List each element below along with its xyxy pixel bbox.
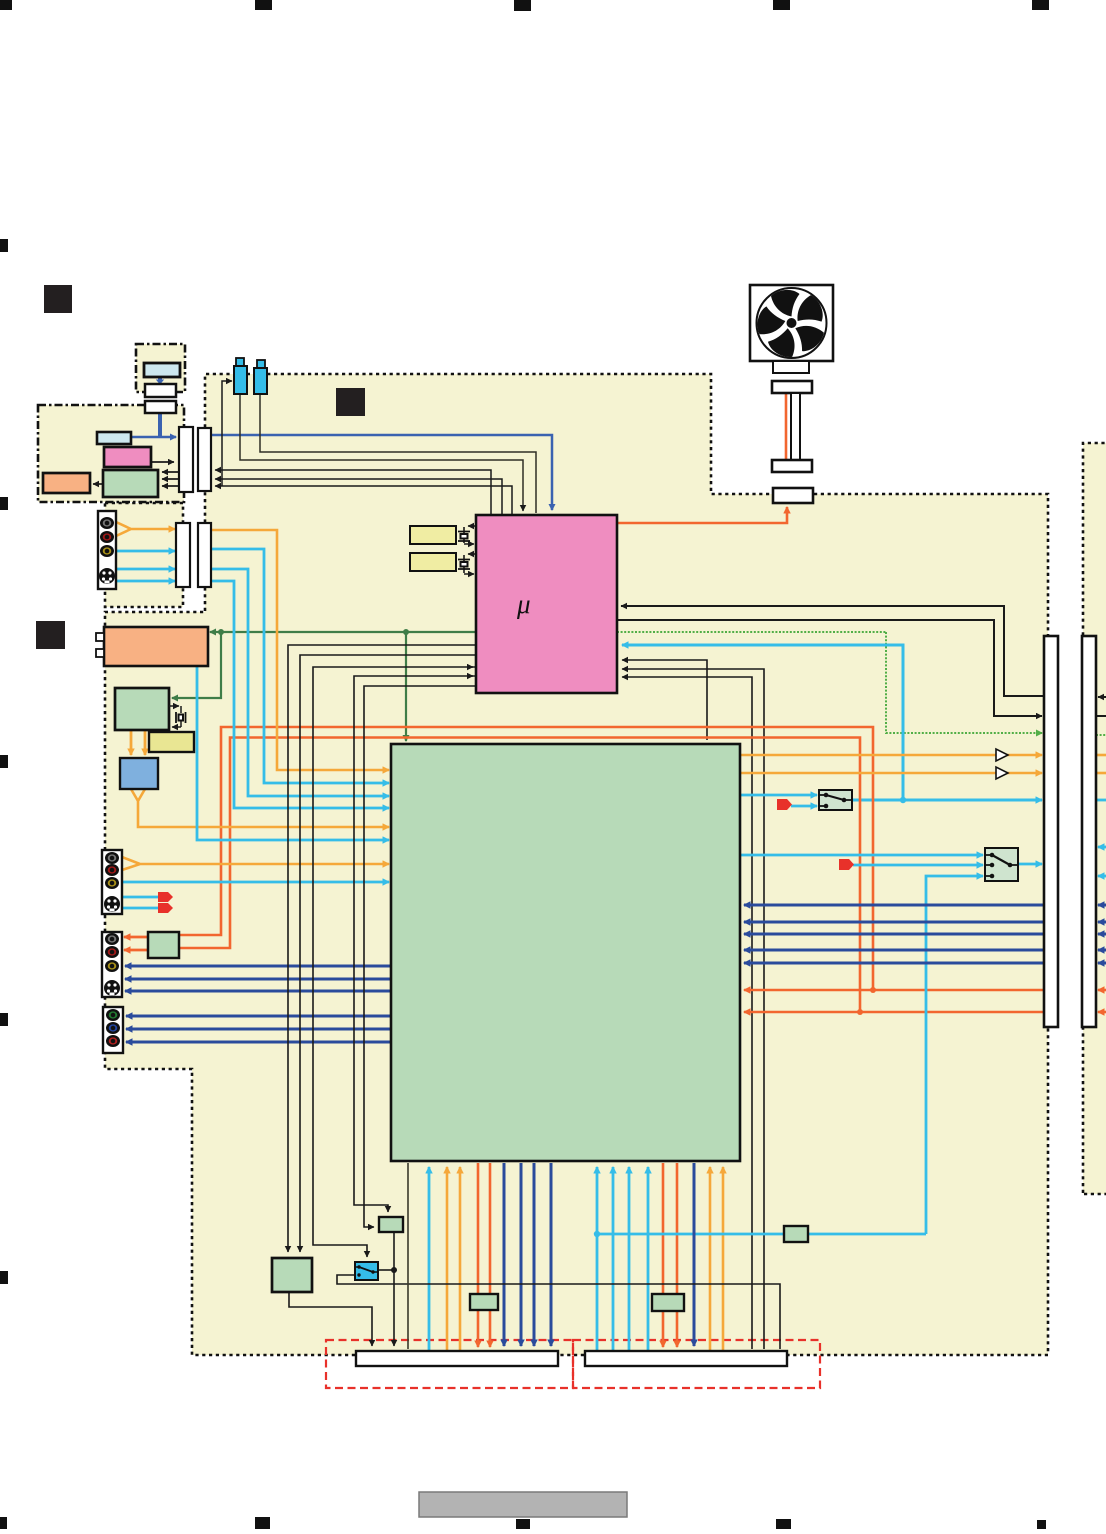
wire black bar to keyscan box 1 [162, 471, 179, 473]
wire cyan connector B to main ic 2 [612, 1167, 615, 1351]
node black junction [391, 1267, 397, 1273]
wire cyan jack panel1 svideo y [116, 568, 175, 571]
wire orange stub bar2 right 1 [1098, 989, 1106, 992]
wire orange main ic to connector B pin2 [676, 1163, 679, 1347]
wire black arrow into mcu left 1 [468, 666, 473, 668]
wire black keyscan to led box [93, 483, 103, 485]
bottom box4 green [652, 1294, 684, 1311]
wire navy main ic to jack panel4 y [126, 1015, 391, 1018]
registration mark bottom 3 [516, 1519, 530, 1529]
jack panel 3 [102, 932, 122, 997]
node green junction 1 [218, 629, 224, 635]
wire navy main ic to jack panel4 pr [126, 1041, 391, 1044]
wire black bus line to bar b [215, 479, 502, 515]
red dashed connector outline left [326, 1340, 573, 1388]
wire navy main ic to jack panel3 video [125, 965, 391, 968]
red flag marker 2 [158, 903, 173, 913]
main board region (yellow, dotted border) [105, 374, 1048, 1355]
wire black main ic to connector A direct [407, 1163, 409, 1349]
wire cyan flag1 to switch1 [791, 805, 817, 808]
buffer triangle 2 [996, 767, 1008, 779]
microcontroller U1 [476, 515, 617, 693]
red flag marker 4 [839, 859, 854, 870]
wire cyan bottom link [597, 1233, 926, 1236]
wire cyan connector A to main ic [428, 1167, 431, 1351]
wire cyan stub bar2 right 3 [1098, 875, 1106, 878]
wire cyan svideo stub c [122, 907, 158, 910]
connector bar right 1 [1044, 636, 1058, 1027]
crystal X1 symbol [458, 532, 470, 542]
jack panel 4 component [103, 1007, 123, 1053]
wire navy main ic to connector A 2 [520, 1163, 523, 1346]
wire yellow connector B to main ic 1 [709, 1167, 712, 1351]
crystal box Y2 [410, 553, 456, 571]
connector B bottom [585, 1351, 787, 1366]
box C dotted border [105, 503, 183, 607]
wire yellow dsp to video box 1 [130, 731, 133, 755]
red dashed connector outline right [573, 1340, 820, 1388]
node green junction 2 [403, 629, 409, 635]
right side board region [1083, 443, 1106, 1194]
wire cyan main ic to switch2 [740, 854, 983, 857]
wire cyan tuner audio to main ic [197, 666, 389, 840]
registration mark bottom 4 [776, 1519, 791, 1529]
jack sub-region box C [105, 503, 183, 607]
fan cable [791, 393, 800, 460]
bottom box5 green [784, 1226, 808, 1242]
wire navy bar1 to main ic 2 [744, 921, 1044, 924]
wire navy main ic to jack panel4 pb [126, 1028, 391, 1031]
connector bar front 1 [179, 427, 193, 492]
wire orange stub bar2 right 2 [1098, 1011, 1106, 1014]
wire green system bus right to bar1 [886, 632, 1042, 733]
wire blue tuner-display to bar [131, 436, 176, 439]
wire yellow main ic to bar1 lower [740, 772, 1042, 775]
transistor Q1 [236, 358, 244, 367]
fan plug lower [772, 460, 812, 472]
wire navy bar1 to main ic 1 [744, 904, 1044, 907]
node orange junction O2 [857, 1009, 863, 1015]
wire black mcu to bottom box2 line1 [288, 645, 476, 1252]
wire cyan connector B to main ic 4 [647, 1167, 650, 1351]
keyscan ic green [103, 470, 158, 497]
wire black crystal X2 stubs [464, 555, 474, 574]
tuner pin 2 [96, 649, 104, 657]
tuner display box [97, 432, 131, 444]
wire green system bus left [210, 631, 476, 633]
jack panel 1 [98, 511, 116, 589]
wire yellow dsp to video box 2 [144, 731, 147, 755]
wire black bus line to bar c [215, 486, 512, 515]
wire black crystal X1 stubs [464, 527, 474, 544]
main ic big green block [391, 744, 740, 1161]
registration mark bottom 2 [255, 1517, 270, 1529]
fan connector on board [773, 488, 813, 503]
wire cyan switch2 output to bar1 [1018, 863, 1042, 866]
wire yellow main ic to bar1 upper [740, 754, 1042, 757]
wire yellow stub bar2 right 2 [1096, 772, 1106, 775]
crystal X2 symbol [458, 560, 470, 570]
wire cyan flag2 to switch2 [853, 864, 983, 867]
wire navy main ic to connector A 3 [533, 1163, 536, 1346]
wire cyan stub bar2 right 1 [1096, 799, 1106, 802]
connector A bottom [356, 1351, 558, 1366]
wire cyan jack panel1 video [116, 550, 175, 553]
registration mark bottom 1 [0, 1517, 7, 1529]
wire yellow connector A to main ic 2 [459, 1167, 462, 1351]
registration mark left 5 [0, 1271, 8, 1284]
wire orange main ic to connector B pin1 [662, 1163, 665, 1347]
wire yellow connector B to main ic 2 [722, 1167, 725, 1351]
registration mark top 1 [0, 0, 12, 10]
wire navy main ic to connector A 1 [503, 1163, 506, 1346]
tuner pack box [104, 627, 208, 666]
box A dash-dot border [136, 344, 185, 392]
wire navy stub bar2 right 5 [1098, 962, 1106, 965]
wire black mcu data 1 to main ic [622, 660, 707, 740]
registration mark left 4 [0, 1013, 8, 1026]
wire navy stub bar2 right 4 [1098, 949, 1106, 952]
wire cyan main ic to switch1 [740, 794, 817, 797]
wire black mcu to bottom box2 line2 [300, 655, 476, 1252]
led driver box orange [43, 473, 90, 493]
right region dotted border [1083, 443, 1106, 1194]
wire cyan bar to main ic in3 [211, 581, 389, 808]
section square S3 [36, 621, 65, 649]
wire green branch to dsp [172, 632, 221, 698]
lcd display module [144, 363, 180, 377]
bottom box1 small green [379, 1217, 403, 1232]
connector bar right 2 [1082, 636, 1096, 1027]
wire cyan jack panel1 svideo c [116, 580, 175, 583]
connector bar jack 2 [198, 523, 211, 587]
registration mark top 4 [773, 0, 790, 10]
front panel sub-region box B [38, 405, 184, 502]
node orange junction O1 [870, 987, 876, 993]
wire black bus line to bar a [215, 470, 491, 515]
registration mark top 3 [514, 0, 531, 11]
jack buffer box panel3 [148, 932, 179, 958]
wire orange video net O2 [179, 738, 1044, 1013]
wire navy bar1 to main ic 3 [744, 933, 1044, 936]
registration mark left 1 [0, 239, 8, 252]
registration mark top 5 [1032, 0, 1049, 10]
wire black transistor Q1 to microcontroller [240, 394, 523, 511]
wire cyan jack panel2 video to main ic [122, 881, 389, 884]
switch SW2 [985, 848, 1018, 881]
wire yellow jack panel1 merge [116, 522, 175, 536]
wire black microcontroller to bar1 [617, 620, 1042, 716]
wire blue long bus to microcontroller [211, 435, 552, 510]
wire black mcu data 3 to connector B [622, 677, 752, 1349]
key matrix box pink [104, 447, 151, 467]
wire orange O2 into main ic [744, 1011, 860, 1014]
bottom box2 green [272, 1258, 312, 1292]
wire orange fan power from microcontroller [617, 507, 787, 523]
connector bar front 2 [198, 428, 211, 491]
wire navy stub bar2 right 2 [1098, 921, 1106, 924]
jack panel 2 [102, 850, 122, 914]
wire orange main ic to connector A pin1 [477, 1163, 480, 1347]
wire blue LCD to keybox [158, 377, 162, 380]
wire yellow stub bar2 right 1 [1096, 754, 1106, 757]
wire yellow connector A to main ic 1 [446, 1167, 449, 1351]
section square S1 [44, 285, 72, 313]
registration mark left 3 [0, 755, 8, 768]
wire navy main ic to jack panel3 svideo y [125, 978, 391, 981]
wire cyan riser to switch2 [926, 876, 983, 1234]
wire black bar1 to microcontroller in [621, 606, 1044, 696]
wire orange to jack panel3 video [124, 936, 148, 939]
key box 2 [145, 401, 176, 413]
wire cyan bar to main ic in1 [211, 549, 389, 783]
wire black bar to keyscan box 3 [162, 485, 179, 487]
wire black mcu to bottom box1 top [354, 676, 476, 1212]
wire orange fan cable [785, 394, 788, 459]
display unit sub-region box A [136, 344, 185, 392]
wire black box1 to connector A [393, 1232, 395, 1346]
wire orange main ic to connector A pin2 [489, 1163, 492, 1347]
wire green system bus right dotted [617, 631, 886, 633]
wire black transistor Q2 to microcontroller [260, 394, 536, 513]
wire black stub bar2 right 2 [1096, 715, 1106, 717]
audio box yellow-green [149, 732, 194, 752]
wire cyan connector B to main ic 3 [628, 1167, 631, 1351]
wire black reset switch right pin [378, 1269, 394, 1271]
wire cyan bar to main ic in2 [211, 569, 389, 796]
dsp ic box [115, 688, 169, 730]
wire black dsp crystal stubs [169, 705, 179, 707]
wire black mcu data 2 to connector B [622, 669, 764, 1349]
bottom box3 green [470, 1294, 498, 1310]
wire green branch to main ic [405, 632, 407, 741]
registration mark bottom 5 [1037, 1520, 1046, 1529]
wire orange O1 into main ic [744, 989, 873, 992]
node cyan junction bottom [594, 1231, 600, 1237]
wire yellow bar to main ic video in [211, 530, 389, 770]
connector bar jack 1 [176, 523, 190, 587]
wire black bar to keyscan box 2 [162, 478, 179, 480]
transistor Q2 [257, 360, 265, 369]
key box 1 [145, 384, 176, 397]
wire cyan stub bar2 right 2 [1098, 846, 1106, 849]
svg-text:μ: μ [516, 589, 531, 619]
wire black arrow into mcu left 2 [468, 675, 473, 677]
wire yellow jack panel2 merge to main ic [122, 857, 389, 870]
box B dash-dot border [38, 405, 184, 502]
wire cyan svideo stub y [122, 896, 158, 899]
wire navy stub bar2 right 1 [1098, 904, 1106, 907]
wire cyan connector B to main ic 1 [596, 1167, 599, 1351]
tuner pin 1 [96, 633, 104, 641]
wire yellow video box merge to main ic [131, 789, 389, 827]
wire navy stub bar2 right 3 [1098, 933, 1106, 936]
fan plug upper [772, 381, 812, 393]
crystal X3 symbol [176, 712, 186, 723]
title plate gray [419, 1492, 627, 1517]
wire orange to jack panel3 audio [124, 949, 148, 952]
red flag marker 1 [158, 892, 173, 902]
wire navy main ic to connector B [693, 1163, 696, 1346]
wire black mcu to reset switch [313, 667, 476, 1257]
main region dotted border [105, 374, 1048, 1355]
wire navy bar1 to main ic 5 [744, 962, 1044, 965]
registration mark left 2 [0, 497, 8, 510]
red flag marker 3 [777, 799, 792, 810]
fan mount bracket [773, 361, 809, 373]
wire black mcu to bottom box1 left [364, 686, 476, 1227]
registration mark top 2 [255, 0, 272, 10]
fan FAN1 [750, 285, 833, 362]
wire orange video net O1 [179, 727, 1044, 990]
wire cyan switch1 output to bar1 [851, 799, 1042, 802]
switch SW1 [819, 790, 852, 810]
wire black box2 to connector A [289, 1292, 372, 1346]
wire blue keybox down [158, 413, 162, 436]
reset switch cyan [355, 1262, 378, 1280]
wire black pink box to bar [151, 461, 174, 463]
section square S2 [336, 388, 365, 416]
buffer triangle 1 [996, 749, 1008, 761]
wire black drive to transistor Q1 [222, 381, 232, 486]
wire green stub bar2 right [1096, 734, 1106, 736]
wire navy main ic to jack panel3 svideo c [125, 990, 391, 993]
wire black stub bar2 right 1 [1098, 696, 1106, 698]
wire navy bar1 to main ic 4 [744, 949, 1044, 952]
wire navy main ic to connector A 4 [550, 1163, 553, 1346]
wire cyan branch to microcontroller [622, 645, 903, 800]
video encoder box blue [120, 758, 158, 789]
node cyan junction [900, 797, 906, 803]
crystal box Y1 [410, 526, 456, 544]
wire black reset switch to connector B [337, 1275, 780, 1349]
